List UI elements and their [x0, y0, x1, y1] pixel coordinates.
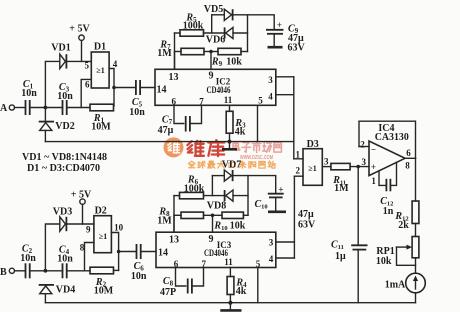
capacitor C5	[129, 80, 145, 118]
wire D1 pin4 output	[109, 69, 114, 107]
capacitor C6	[131, 244, 147, 282]
wire diode branch riser	[211, 15, 213, 33]
op-amp IC4 CA3130	[359, 121, 416, 186]
svg-text:VD6: VD6	[206, 35, 225, 46]
gate D1	[85, 42, 118, 90]
svg-text:VD7: VD7	[222, 160, 241, 171]
svg-text:4k: 4k	[235, 127, 246, 138]
wire R6 to diode branch	[204, 195, 225, 197]
wire diode branch riser lower	[211, 176, 213, 196]
svg-text:6: 6	[406, 148, 411, 158]
resistor R3	[226, 105, 246, 141]
node main junction lower	[44, 269, 48, 273]
wire C2 to C4	[30, 270, 63, 272]
svg-text:11: 11	[224, 257, 233, 267]
svg-text:5: 5	[85, 61, 90, 71]
wire VD3 to D2 pin9	[66, 223, 94, 225]
capacitor C2	[20, 244, 36, 279]
wire C6 to IC3 pin14	[141, 251, 156, 253]
wire IC3 pin4 stub	[276, 257, 295, 259]
wire D3 output	[322, 166, 331, 168]
svg-text:3: 3	[361, 157, 366, 167]
wire VD1 line left	[45, 61, 59, 107]
svg-text:11: 11	[224, 95, 233, 105]
wire VD1 to D1 pin5	[66, 60, 91, 62]
gate D2	[80, 206, 124, 253]
potentiometer RP1	[376, 224, 419, 274]
svg-text:−: −	[371, 145, 376, 155]
svg-text:+: +	[371, 162, 376, 172]
wire IC2 pin13	[174, 52, 176, 70]
svg-text:D1: D1	[94, 42, 106, 53]
svg-text:1: 1	[295, 150, 300, 160]
wire bottom rail	[45, 302, 415, 304]
resistor R4	[227, 268, 247, 303]
svg-text:CA3130: CA3130	[375, 132, 409, 143]
wire right vertical diode node lower	[233, 176, 248, 216]
svg-text:1M: 1M	[157, 216, 172, 227]
svg-text:3: 3	[324, 157, 329, 167]
wire C5 to IC2 pin14	[140, 87, 155, 89]
svg-text:VD1: VD1	[51, 43, 70, 54]
svg-text:2: 2	[360, 140, 365, 150]
svg-text:8: 8	[80, 243, 85, 253]
wire R5 to diode branch	[204, 32, 225, 34]
resistor R10	[204, 212, 249, 232]
ground under rail	[220, 303, 241, 311]
wire D3 input2 stub	[294, 175, 303, 177]
svg-text:1M: 1M	[157, 48, 172, 59]
wire IC3 pin3 stub	[276, 241, 295, 243]
svg-text:9: 9	[209, 71, 214, 82]
wire IC2 pin9	[210, 52, 212, 70]
svg-text:10n: 10n	[21, 88, 37, 99]
wire VD3 line left	[45, 224, 59, 271]
svg-text:10M: 10M	[91, 122, 111, 133]
svg-text:63V: 63V	[298, 220, 316, 231]
svg-text:10n: 10n	[129, 107, 145, 118]
capacitor C12	[379, 162, 397, 217]
node R7 R9 junction	[209, 50, 213, 54]
svg-text:2k: 2k	[398, 220, 409, 231]
svg-text:4: 4	[113, 59, 118, 69]
wire C1 to C3	[30, 107, 63, 109]
svg-text:10k: 10k	[230, 221, 246, 232]
wire IC3 pin13	[173, 215, 175, 232]
wire C3 to R1	[67, 107, 90, 109]
diode VD6	[206, 27, 248, 45]
svg-text:1n: 1n	[383, 206, 394, 217]
svg-text:5: 5	[258, 96, 263, 106]
svg-text:14: 14	[158, 248, 168, 259]
svg-text:+ 5V: + 5V	[69, 24, 90, 35]
svg-text:VD1 ~ VD8:1N4148: VD1 ~ VD8:1N4148	[22, 152, 107, 163]
resistor R6	[174, 175, 205, 199]
diode VD2	[39, 108, 75, 142]
svg-text:9: 9	[209, 234, 214, 245]
gate D3	[295, 139, 329, 185]
wire IC2 pin5 drop	[257, 105, 259, 141]
node R4 rail junction	[228, 301, 232, 305]
wire D3 input1 stub	[294, 158, 303, 160]
wire A to C1	[15, 107, 26, 109]
resistor R12	[394, 158, 418, 231]
wire D2 pin10 output	[111, 233, 118, 271]
wire vertical to D3 input1	[293, 77, 295, 159]
watermark text 电子市场网	[233, 142, 281, 153]
node main junction upper	[44, 106, 48, 110]
svg-text:10n: 10n	[57, 91, 73, 102]
resistor R11	[331, 163, 350, 194]
svg-text:63V: 63V	[288, 43, 306, 54]
capacitor C1	[21, 79, 37, 115]
wire C4 to R2	[67, 270, 90, 272]
svg-text:CD4046: CD4046	[207, 85, 231, 95]
node R3 junction	[228, 140, 232, 144]
resistor R2	[90, 267, 114, 296]
svg-text:47P: 47P	[160, 287, 176, 298]
ground under R3	[222, 142, 237, 150]
wire to C5	[114, 87, 136, 89]
resistor R1	[90, 104, 114, 132]
meter 1mA	[385, 273, 426, 303]
wire riser to D1 pin6	[81, 79, 91, 107]
+5V terminal upper	[69, 24, 90, 62]
svg-text:8: 8	[405, 161, 410, 171]
wire IC2 pin3 stub	[276, 76, 294, 78]
svg-text:47μ: 47μ	[298, 209, 314, 220]
node C11 junction	[356, 165, 360, 169]
svg-text:2: 2	[295, 166, 300, 176]
svg-text:100k: 100k	[184, 184, 205, 195]
svg-text:1M: 1M	[334, 183, 349, 194]
node pin4/C5	[112, 86, 116, 90]
capacitor C8	[160, 268, 204, 299]
watermark logo circle	[164, 137, 184, 157]
resistor R9	[204, 48, 248, 68]
svg-text:VD8: VD8	[207, 201, 226, 212]
wire vertical to D3 input2	[293, 176, 295, 258]
svg-text:B: B	[0, 267, 7, 278]
svg-text:VD4: VD4	[56, 285, 75, 296]
wire to C6	[119, 251, 137, 253]
svg-text:10n: 10n	[20, 253, 36, 264]
svg-text:10: 10	[114, 223, 124, 233]
capacitor C9 electrolytic	[266, 20, 306, 54]
diode VD7	[212, 160, 241, 182]
svg-text:10M: 10M	[94, 286, 114, 297]
svg-text:10n: 10n	[57, 254, 73, 265]
svg-text:10n: 10n	[131, 271, 147, 282]
node R8 R10 junction	[211, 214, 215, 218]
svg-text:13: 13	[169, 72, 179, 83]
resistor R5	[175, 13, 204, 37]
capacitor C3	[57, 82, 73, 115]
+5V terminal lower	[71, 190, 92, 225]
svg-text:1μ: 1μ	[335, 251, 346, 262]
capacitor C7	[158, 105, 202, 136]
svg-text:≥1: ≥1	[99, 232, 107, 241]
wire IC3 pin9	[212, 215, 214, 232]
svg-text:+: +	[277, 20, 282, 30]
diode VD3	[53, 207, 72, 232]
resistor R8	[157, 207, 203, 227]
wire to C9	[248, 15, 275, 29]
svg-text:1: 1	[371, 176, 376, 186]
svg-text:10k: 10k	[226, 57, 242, 68]
svg-text:3: 3	[269, 238, 274, 248]
IC2 CD4046	[155, 69, 276, 106]
svg-text:9: 9	[86, 225, 91, 235]
svg-text:6: 6	[85, 80, 90, 90]
svg-text:13: 13	[169, 235, 179, 246]
svg-text:WWW.DZSC.COM: WWW.DZSC.COM	[240, 155, 273, 161]
svg-text:VD5: VD5	[204, 4, 223, 15]
wire right vertical diode node	[233, 15, 248, 52]
diode VD8	[207, 190, 248, 212]
diode VD1	[51, 43, 70, 69]
svg-text:VD3: VD3	[53, 207, 72, 218]
capacitor C10 electrolytic	[255, 185, 317, 231]
watermark slogan	[188, 161, 275, 168]
svg-text:A: A	[0, 103, 8, 114]
svg-text:4: 4	[268, 92, 273, 102]
svg-text:14: 14	[157, 85, 167, 96]
IC3 CD4046	[156, 232, 276, 269]
ground under C9	[268, 46, 283, 49]
svg-text:1mA: 1mA	[385, 280, 406, 291]
svg-text:4k: 4k	[236, 286, 247, 297]
wire IC2 pin4 stub	[276, 94, 294, 96]
svg-text:10k: 10k	[376, 256, 392, 267]
wire riser to D2 pin8	[85, 243, 94, 271]
svg-text:4: 4	[269, 254, 274, 264]
svg-text:100k: 100k	[183, 21, 204, 32]
wire R2 to output node	[114, 269, 119, 271]
resistor R7	[157, 40, 204, 59]
capacitor C4	[57, 245, 73, 279]
svg-text:≥1: ≥1	[308, 164, 316, 173]
wire left vertical R5/R7	[174, 33, 176, 69]
wire IC3 pin5 drop	[257, 268, 259, 303]
ground under C10	[268, 211, 286, 214]
capacitor C11	[331, 167, 368, 303]
svg-text:D2: D2	[95, 206, 107, 217]
diode VD5	[204, 4, 233, 20]
svg-text:D1 ~ D3:CD4070: D1 ~ D3:CD4070	[27, 163, 100, 174]
wire opamp output	[405, 157, 416, 159]
svg-text:6: 6	[174, 259, 179, 269]
wire long line VD2 to D3	[45, 141, 293, 143]
wire B to C2	[15, 270, 26, 272]
svg-text:D3: D3	[307, 139, 319, 150]
watermark text 维库	[187, 140, 224, 156]
svg-text:47μ: 47μ	[158, 125, 174, 136]
svg-text:≥1: ≥1	[96, 66, 104, 75]
wire to C10	[248, 176, 276, 193]
svg-text:VD2: VD2	[55, 121, 74, 132]
svg-text:3: 3	[268, 75, 273, 85]
node pin10/C6	[117, 250, 121, 254]
wire left vertical R6/R8	[173, 196, 175, 233]
wire R11 to opamp pin3	[350, 166, 369, 168]
diode VD4	[39, 285, 76, 303]
